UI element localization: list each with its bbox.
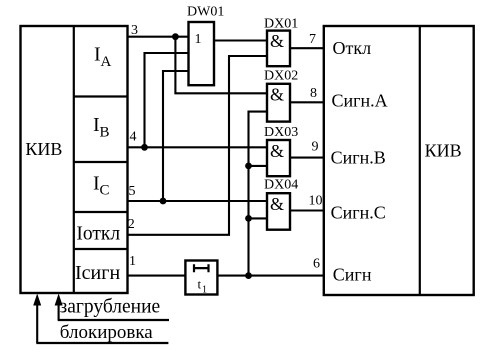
wire DX03 output to pin9 SignB	[290, 157, 324, 159]
wire pin2 Iotkl to DX01 input2	[128, 56, 268, 235]
block U2 right KIV divider	[419, 26, 421, 295]
svg-text:Сигн.А: Сигн.А	[332, 90, 388, 110]
cell divider IB/IC	[74, 161, 128, 163]
svg-text:1: 1	[202, 285, 207, 296]
and-gate DX04 box	[267, 193, 290, 230]
svg-text:&: &	[270, 31, 284, 51]
svg-text:DX01: DX01	[264, 17, 298, 32]
svg-text:загрубление: загрубление	[60, 297, 161, 318]
svg-text:КИВ: КИВ	[25, 139, 62, 159]
arrow input blokirovka	[33, 294, 41, 344]
node junction DX03 input2	[245, 163, 252, 170]
and-gate DX02 box	[267, 84, 290, 122]
svg-text:Откл: Откл	[333, 38, 372, 58]
wire timer T1 output to pin6 Sign	[218, 275, 324, 277]
svg-text:t: t	[198, 277, 202, 292]
svg-text:Iсигн: Iсигн	[75, 262, 120, 284]
wire zagrublenie underline	[58, 319, 169, 321]
wire blokirovka underline	[36, 342, 168, 344]
svg-text:А: А	[101, 54, 112, 70]
label IC	[93, 172, 110, 198]
block U1 left KIV outer box	[21, 26, 128, 293]
wire branch to DX03 input2	[249, 165, 268, 167]
node junction pin4	[141, 144, 148, 151]
wire pin3 branch down to DX02 input1	[175, 37, 267, 94]
svg-text:Сигн.В: Сигн.В	[331, 147, 386, 167]
and-gate DX03 box	[267, 140, 290, 176]
cell divider Iotkl/Isign	[74, 248, 128, 250]
svg-text:9: 9	[312, 140, 319, 155]
svg-text:7: 7	[309, 32, 316, 47]
svg-text:Сигн.С: Сигн.С	[331, 203, 386, 223]
svg-text:2: 2	[128, 217, 135, 232]
svg-text:Iоткл: Iоткл	[76, 224, 120, 245]
wire timer riser to DX02 input2	[249, 112, 268, 276]
wire DX02 output to pin8 SignA	[290, 101, 324, 103]
block U2 right KIV outer box	[324, 26, 474, 295]
cell divider IA/IB	[74, 95, 128, 97]
svg-text:В: В	[100, 125, 110, 141]
svg-text:DX03: DX03	[264, 125, 298, 140]
wire DW01 input2 from pin4	[145, 53, 189, 147]
block U1 left KIV divider	[73, 26, 75, 293]
svg-text:&: &	[270, 85, 284, 105]
wire branch to DX04 input2	[249, 217, 268, 219]
svg-text:1: 1	[129, 254, 136, 269]
svg-text:4: 4	[130, 129, 137, 144]
svg-text:DX02: DX02	[264, 69, 298, 84]
svg-text:Сигн: Сигн	[333, 264, 372, 284]
wire DW01 output to DX01 input1	[214, 39, 267, 41]
svg-text:5: 5	[129, 184, 136, 199]
node junction pin3 branch	[172, 33, 179, 40]
svg-text:С: С	[100, 183, 110, 199]
wire pin4 IB to DX03 input1	[128, 146, 268, 148]
wire pin5 IC to DX04 input1	[128, 200, 268, 202]
and-gate DX01 box	[267, 31, 290, 67]
svg-text:&: &	[270, 194, 284, 214]
svg-text:DW01: DW01	[187, 5, 224, 20]
label IA	[94, 44, 112, 70]
wire DW01 input3 from pin5	[163, 71, 189, 201]
svg-text:1: 1	[195, 32, 202, 47]
timer T1 box	[185, 261, 217, 296]
node junction timer output	[245, 272, 252, 279]
svg-text:DX04: DX04	[264, 177, 298, 192]
svg-text:10: 10	[309, 194, 323, 209]
wire DX01 output to pin7 Otkl	[290, 47, 324, 49]
svg-text:&: &	[270, 141, 284, 161]
svg-text:КИВ: КИВ	[425, 141, 462, 161]
node junction DX04 input2	[245, 215, 252, 222]
or-gate DW01 box	[189, 22, 215, 85]
arrow input zagrublenie	[55, 294, 63, 321]
label IB	[93, 114, 110, 140]
svg-text:3: 3	[131, 23, 138, 38]
node junction pin5	[160, 198, 167, 205]
svg-text:блокировка: блокировка	[60, 322, 153, 343]
cell divider IC/Iotkl	[74, 211, 128, 213]
wire pin1 Isign to timer T1	[128, 275, 186, 277]
svg-text:6: 6	[313, 256, 320, 271]
wire pin3 IA to DW01 input1	[128, 36, 189, 38]
svg-text:8: 8	[310, 86, 317, 101]
wire DX04 output to pin10 SignC	[290, 209, 324, 211]
